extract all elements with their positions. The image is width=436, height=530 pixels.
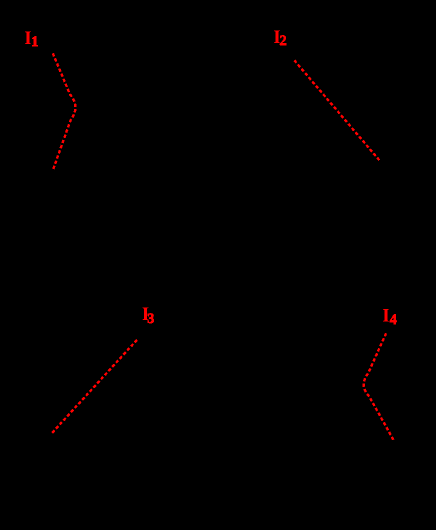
current leader line I1 (53, 53, 76, 169)
current label I3 (142, 304, 155, 327)
current label I1 (24, 28, 38, 50)
current leader line I2 (294, 60, 379, 160)
current label I2 (273, 27, 286, 49)
svg-text:2: 2 (280, 33, 287, 49)
svg-text:3: 3 (147, 311, 154, 327)
svg-text:4: 4 (390, 312, 397, 328)
current label I4 (382, 305, 396, 327)
svg-text:1: 1 (31, 34, 38, 50)
current leader line I3 (52, 340, 137, 433)
svg-text:I: I (382, 305, 389, 326)
current leader line I4 (364, 333, 394, 440)
